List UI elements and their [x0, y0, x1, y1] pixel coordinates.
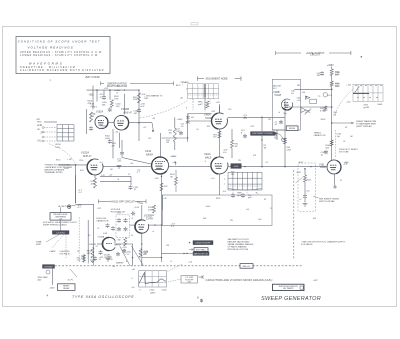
wire v152a lower lead	[94, 175, 96, 178]
svg-text:V91A: V91A	[204, 152, 211, 156]
wire bottom center riser	[132, 244, 134, 266]
label filled box att cover	[193, 252, 209, 256]
resistor RK below V90A	[218, 131, 221, 138]
ground neon chain	[303, 204, 308, 207]
svg-text:R5: R5	[152, 215, 154, 217]
svg-text:+4: +4	[278, 112, 280, 114]
junction rail a	[187, 117, 188, 118]
junction y166 v131	[151, 166, 152, 167]
wire trunk below V152A	[75, 175, 77, 203]
svg-text:-6.4: -6.4	[223, 191, 226, 193]
svg-text:.001: .001	[258, 219, 262, 221]
wire V162A to V162B	[108, 122, 114, 124]
wire +225V feed	[331, 67, 333, 70]
junction rail91 a	[244, 166, 245, 167]
svg-text:.05: .05	[196, 129, 199, 131]
svg-text:C1: C1	[128, 174, 130, 176]
pointer dashed to waveform	[168, 264, 183, 272]
capacitor C12 mid	[179, 131, 183, 135]
neon bulb B45	[323, 93, 327, 97]
terminal dot below V161	[334, 186, 336, 188]
wire right column low	[331, 123, 333, 161]
wire V152A to V131 cathode rail	[103, 165, 152, 167]
resistor R131 trunk	[160, 183, 163, 191]
svg-text:-0.57+135: -0.57+135	[117, 158, 121, 162]
svg-text:0.1: 0.1	[96, 246, 99, 248]
svg-text:V162A: V162A	[96, 111, 104, 114]
resistor R154 below v152a	[94, 178, 97, 188]
svg-text:LOCKOUT: LOCKOUT	[56, 233, 66, 235]
resistor R136	[124, 238, 127, 247]
wire trunk below V131	[161, 174, 163, 262]
wire inset rail bottom	[286, 106, 333, 108]
svg-text:+8: +8	[117, 179, 119, 181]
capacitor C151	[89, 126, 93, 130]
wire R91 bottom	[231, 148, 233, 158]
wire out rail y244 ext	[114, 241, 116, 245]
tube V161 envelope	[327, 160, 341, 174]
switch SW150 row4 circle	[42, 140, 44, 142]
svg-text:+225V: +225V	[327, 65, 334, 67]
svg-text:+1.96: +1.96	[134, 207, 140, 209]
svg-text:+225: +225	[216, 102, 220, 104]
trimmer capacitor C45	[305, 109, 312, 115]
wire V90A top stub	[219, 106, 221, 113]
svg-text:x10: x10	[246, 209, 249, 211]
svg-text:C150: C150	[79, 160, 83, 162]
svg-text:V131: V131	[145, 149, 152, 153]
capacitor C165	[324, 150, 328, 154]
capacitor C160c grid	[231, 193, 235, 197]
boxed label right of waveform	[181, 276, 198, 283]
potentiometer circle	[46, 270, 50, 274]
svg-text:-150V: -150V	[233, 166, 239, 168]
switch SW160 lockout grid	[188, 84, 219, 99]
junction output rail 2	[284, 166, 286, 168]
tube V162B envelope	[114, 115, 129, 130]
svg-text:CHOPPED(ON PNLS): CHOPPED(ON PNLS)	[60, 251, 71, 255]
tube V130B envelope	[135, 220, 149, 233]
label box SWL-517	[240, 264, 253, 269]
tube V135A envelope	[102, 237, 115, 250]
junction att rail a	[183, 253, 184, 254]
svg-text:CONDITIONS OF SCOPE UNDER TEST: CONDITIONS OF SCOPE UNDER TEST	[18, 40, 101, 44]
chassis dashed boundary vertical	[293, 170, 295, 259]
capacitor C135c	[117, 227, 121, 231]
svg-text:+11.8: +11.8	[327, 95, 332, 97]
ground v152b	[106, 259, 111, 262]
svg-text:ADJUSMENT NODE: ADJUSMENT NODE	[206, 78, 229, 81]
capacitor CK bottom a	[99, 250, 103, 254]
svg-text:R93470: R93470	[213, 134, 216, 138]
tube V133A envelope	[281, 99, 292, 110]
junction trunk x75 top	[75, 164, 77, 166]
wire chain mid	[304, 182, 306, 194]
wire diagonal into V131	[122, 158, 151, 165]
wire chain down	[304, 198, 306, 202]
diode triangle left of inset	[301, 108, 306, 113]
capacitor C134	[131, 212, 135, 216]
wire x75 to V152A	[59, 164, 76, 166]
dashed box holdoff capacitor bank	[116, 215, 130, 238]
tube V90A envelope	[211, 113, 227, 129]
svg-text:6AN8: 6AN8	[146, 153, 153, 157]
bracket +gate output circuit	[276, 51, 351, 55]
wire disconnect junction riser lower	[261, 136, 263, 167]
svg-text:R3: R3	[88, 235, 90, 237]
box reset relay	[58, 284, 76, 291]
svg-text:+225: +225	[97, 208, 101, 210]
wire V90A plate rail	[228, 116, 286, 118]
wire coupling column	[121, 140, 123, 151]
svg-text:B175: B175	[176, 85, 180, 87]
small box left of title	[300, 286, 303, 289]
svg-text:-.5: -.5	[204, 161, 206, 163]
resistor R90b x285	[284, 138, 287, 144]
wire V130B out	[149, 224, 163, 226]
svg-text:SAWTOOTH OUT: SAWTOOTH OUT	[194, 253, 209, 256]
wire trigbox to lockout	[60, 220, 62, 231]
timing grid dashes	[228, 186, 262, 194]
svg-text:RESETRELAY: RESETRELAY	[63, 286, 70, 290]
resistor R161 plate load	[138, 93, 141, 103]
tunnel diode TD45 box	[310, 99, 317, 103]
label filled box trigger bottom	[43, 265, 55, 269]
wire lower rail a	[100, 175, 131, 177]
wire stub x104	[103, 90, 105, 95]
svg-text:C90: C90	[228, 109, 231, 111]
resistor R135b	[153, 205, 156, 213]
wire R130 bottom	[175, 185, 177, 192]
junction x187 mid	[187, 137, 188, 138]
wire left network vertical	[86, 109, 88, 134]
svg-text:DISCONNECT DIODES: DISCONNECT DIODES	[252, 133, 273, 135]
wire holdoff left riser	[93, 250, 95, 260]
chassis dashed boundary horizontal	[55, 265, 302, 267]
svg-text:+100V: +100V	[205, 206, 211, 208]
timing switch center grid	[228, 172, 262, 190]
wire holdoff rail right	[161, 195, 163, 210]
junction right column a	[331, 89, 333, 91]
capacitor C91	[243, 134, 247, 138]
resistor R41 8.2K 1W	[330, 81, 333, 87]
box timing switch enclosure	[162, 195, 272, 226]
wire x160 to V131 top	[159, 133, 161, 158]
wire R130 top	[175, 170, 177, 177]
resistor R153 2.2M	[139, 249, 142, 258]
pointer into chain	[296, 178, 303, 184]
svg-text:+4.0: +4.0	[109, 175, 113, 177]
wire riser x285	[284, 100, 286, 167]
svg-text:+34: +34	[152, 118, 155, 120]
svg-text:SWEEPTIME - MILLISEC/CM: SWEEPTIME - MILLISEC/CM	[20, 67, 76, 69]
svg-text:SW: SW	[118, 239, 121, 241]
svg-text:μSEC: μSEC	[150, 292, 156, 294]
capacitor stub left of V90A	[186, 114, 190, 121]
wire stub v90a top	[219, 104, 221, 113]
svg-text:Rₐₐ: Rₐₐ	[256, 192, 259, 194]
junction rail b	[219, 89, 221, 91]
junction diode node	[306, 96, 307, 97]
wire V152 plate to +350	[92, 86, 94, 110]
wire left grid feed	[44, 121, 57, 123]
tube V162A envelope	[95, 116, 108, 129]
junction y166 left	[75, 164, 76, 165]
notes box: conditions of scope under test	[16, 37, 110, 74]
timing detail contact dots	[355, 85, 381, 98]
svg-text:+229: +229	[211, 111, 215, 113]
resistor R163 chain	[304, 175, 307, 182]
svg-text:+60: +60	[163, 198, 166, 200]
capacitor C167 riser	[129, 185, 133, 189]
junction near delay pickoff	[189, 242, 190, 243]
neon glow lamp symbol	[68, 205, 71, 208]
svg-text:+14: +14	[112, 266, 115, 268]
dashed link timing capacitor	[335, 130, 337, 158]
svg-text:1W: 1W	[238, 160, 241, 162]
wire trigger input to V152A grid	[59, 164, 87, 166]
svg-text:+84: +84	[191, 117, 194, 119]
svg-text:CALIBRATOR WAVEFORM BOTH DISPL: CALIBRATOR WAVEFORM BOTH DISPLAYED	[20, 69, 104, 72]
svg-text:25.7V: 25.7V	[68, 280, 74, 282]
svg-text:B167: B167	[297, 172, 301, 174]
wire V90A to V91A link	[219, 129, 221, 157]
bracket hold-off circuit	[99, 199, 147, 203]
wire sg mult top rail	[87, 89, 140, 91]
wire glow link	[72, 204, 76, 206]
timing detail diagonal wiper	[355, 86, 360, 93]
diode D45 triangle	[305, 96, 310, 99]
small mark right of bracket	[361, 56, 363, 58]
wire sw150 lead row4	[44, 140, 57, 142]
wire R11 lead up	[174, 117, 176, 128]
junction output rail 1	[261, 166, 263, 168]
svg-text:R150: R150	[56, 160, 60, 162]
svg-text:CATH: CATH	[146, 217, 153, 221]
svg-text:-1.06: -1.06	[154, 178, 158, 180]
svg-text:WAVEFORMS: WAVEFORMS	[29, 61, 64, 65]
capacitor C163 chain	[303, 194, 307, 198]
capacitor C135d	[124, 227, 128, 231]
tube V133A cathode blob	[283, 108, 291, 110]
svg-text:C12180: C12180	[176, 129, 179, 133]
resistor R40 8.2K 5W	[330, 69, 333, 76]
junction v130b wire	[154, 224, 155, 225]
svg-text:V135A: V135A	[98, 236, 105, 239]
svg-text:R14: R14	[207, 126, 210, 128]
junction plate riser	[138, 122, 140, 124]
svg-text:R135: R135	[216, 198, 220, 200]
svg-text:+225: +225	[250, 126, 254, 128]
junction x141 bottom	[141, 243, 142, 244]
svg-text:VOLTAGE READINGS: VOLTAGE READINGS	[28, 46, 74, 50]
wire right column mid	[331, 107, 333, 123]
ground bottom left	[90, 260, 95, 263]
wire att cover rail	[176, 253, 193, 255]
svg-text:(EXT WALL): (EXT WALL)	[196, 249, 207, 252]
svg-text:+225: +225	[344, 163, 348, 165]
fanout dashed lines from lockout	[46, 234, 66, 258]
dashed pointer from sawtooth box	[168, 279, 181, 282]
wire V161 cathode down	[334, 174, 336, 186]
wire +bias to V162B grid	[123, 94, 125, 114]
wire runup riser x187	[187, 114, 189, 142]
resistor R11 mid	[173, 128, 176, 142]
junction rail y90	[96, 89, 98, 91]
resistor R90 left of V90A	[206, 101, 209, 108]
svg-text:10: 10	[131, 235, 133, 237]
junction x161 rail	[161, 224, 162, 225]
title block box	[273, 284, 305, 290]
svg-text:+100: +100	[172, 162, 176, 164]
svg-text:R1: R1	[264, 199, 266, 201]
wire riser to V90A	[188, 120, 212, 122]
svg-text:R163270K: R163270K	[114, 96, 119, 100]
pointer to timing detail	[313, 196, 319, 198]
wire V162B plate to hook	[129, 122, 152, 124]
wire bottom rail to trunk	[142, 257, 162, 259]
wire V91A down to box	[219, 174, 221, 195]
svg-text:+350: +350	[89, 95, 95, 97]
svg-text:47: 47	[340, 180, 342, 182]
label filled box lockout	[52, 231, 69, 235]
svg-text:.001: .001	[306, 191, 310, 193]
wire inset drop	[276, 130, 278, 140]
pointer ext wall	[189, 248, 193, 251]
arrow stub on V131 output	[175, 162, 177, 166]
wire sw160 center feed	[204, 98, 206, 111]
svg-text:R2: R2	[345, 127, 347, 129]
svg-text:R161220K: R161220K	[133, 97, 138, 101]
wire holdoff out rail	[148, 224, 150, 226]
junction rail y90 b	[109, 89, 111, 91]
svg-text:C1.01: C1.01	[275, 122, 278, 126]
svg-text:SWL-517: SWL-517	[243, 266, 251, 268]
svg-text:4: 4	[186, 88, 187, 90]
resistor R151 plate load	[90, 112, 93, 122]
label box ext wall	[194, 248, 208, 252]
linkage dashed arc sweep timing left	[140, 101, 188, 119]
junction chain top	[304, 168, 306, 170]
capacitor C161 coupling	[137, 108, 141, 112]
junction at trigger wire	[67, 164, 69, 166]
svg-text:+140: +140	[37, 124, 43, 127]
wire sweep output	[333, 122, 355, 124]
svg-text:6U8 A*: 6U8 A*	[124, 111, 133, 115]
svg-text:CAPACITORS ARE IN MICRO MICRO: CAPACITORS ARE IN MICRO MICRO FARADS (UU…	[206, 278, 273, 282]
capacitor C135b	[124, 218, 128, 222]
label filled box delay pickoff	[193, 241, 213, 245]
svg-text:+35: +35	[110, 259, 113, 261]
wire trunk corner right	[76, 203, 94, 205]
wire trunk x75 upper	[75, 165, 77, 203]
tube V131 extra grid bars	[155, 162, 166, 170]
wire disconnect junction riser upper	[261, 117, 263, 131]
wire V162B drop b	[112, 129, 114, 159]
wire V91A output rail	[228, 166, 328, 168]
junction bottom rail trunk	[161, 257, 163, 259]
linkage dashed arc to trigger switch	[49, 144, 76, 164]
box +gate amp inset	[272, 79, 300, 130]
capacitor C135a	[117, 218, 121, 222]
svg-text:+109: +109	[141, 94, 145, 96]
arrow to reset relay	[70, 269, 77, 277]
resistor R156 bottom row	[83, 255, 86, 262]
wire R11 lead down	[174, 142, 176, 150]
capacitor C131 coupling	[120, 151, 124, 155]
svg-text:R41: R41	[297, 85, 300, 87]
junction bottom riser	[132, 257, 134, 259]
wire diagonal to V131 grid	[121, 155, 123, 157]
svg-text:+150V: +150V	[115, 244, 122, 246]
capacitor C136 left	[106, 223, 110, 227]
capacitor CK bottom b	[116, 252, 120, 256]
wire V131 to V91A rail	[169, 165, 212, 167]
loop circle	[282, 138, 285, 141]
svg-text:5,000: 5,000	[162, 290, 168, 292]
wire relay riser	[87, 220, 89, 260]
svg-text:C2: C2	[97, 228, 99, 230]
svg-text:6AL5: 6AL5	[205, 155, 212, 159]
svg-text:-1½○: -1½○	[37, 138, 43, 142]
wire grid rail to V90A	[188, 113, 212, 115]
wire relay riser ext	[87, 260, 89, 264]
wire chain riser	[304, 169, 306, 175]
junction x262 mid	[261, 139, 262, 140]
svg-text:LOWER READINGS - STABILITY CON: LOWER READINGS - STABILITY CONTROL C.W.	[20, 54, 99, 57]
resistor R45 right	[324, 106, 327, 112]
timing grid curve	[228, 189, 262, 191]
svg-text:8: 8	[186, 108, 187, 110]
svg-text:½6U8: ½6U8	[274, 93, 281, 97]
svg-text:+100V: +100V	[177, 119, 184, 121]
wire V162 cathode drop	[96, 90, 98, 101]
waveform trace	[139, 273, 166, 284]
capacitor note symbol	[199, 275, 204, 278]
svg-text:SW: SW	[313, 218, 316, 220]
svg-text:UPPER READINGS - STABILITY CON: UPPER READINGS - STABILITY CONTROL C.C.W…	[20, 51, 103, 54]
switch SW160 dashes	[188, 95, 219, 104]
waveform graph box	[139, 271, 167, 287]
svg-text:V161: V161	[319, 164, 325, 166]
capacitor C152	[122, 249, 126, 253]
wire V130B top	[141, 205, 143, 220]
junction sweep output node	[331, 122, 333, 124]
arrow hook to V131 plate return	[152, 123, 154, 132]
junction y166 right	[310, 166, 311, 167]
wire sw160 drop a	[192, 99, 194, 110]
junction plate rail	[261, 117, 263, 119]
resistor R165 right column	[330, 140, 333, 146]
tube V131 envelope	[152, 157, 169, 174]
svg-text:+12: +12	[265, 162, 268, 164]
svg-text:2,500: 2,500	[149, 290, 155, 292]
svg-text:HOLD-OFF CIRCUIT: HOLD-OFF CIRCUIT	[111, 200, 135, 203]
svg-text:DELAY PICKOFF: DELAY PICKOFF	[196, 242, 212, 245]
svg-text:+67: +67	[172, 156, 175, 158]
capacitor C41 bypass	[320, 71, 324, 75]
junction x331 mid	[331, 142, 332, 143]
svg-text:V152A: V152A	[81, 150, 89, 154]
svg-text:+12: +12	[143, 127, 146, 129]
capacitor C164 top	[102, 95, 106, 99]
arrowhead sweep output	[351, 122, 354, 124]
wire mid rail	[162, 137, 188, 139]
wire lower rail b	[100, 180, 131, 182]
wire R91 leads	[231, 129, 233, 140]
svg-text:B167: B167	[299, 162, 303, 164]
junction y90 rail c	[124, 89, 125, 90]
